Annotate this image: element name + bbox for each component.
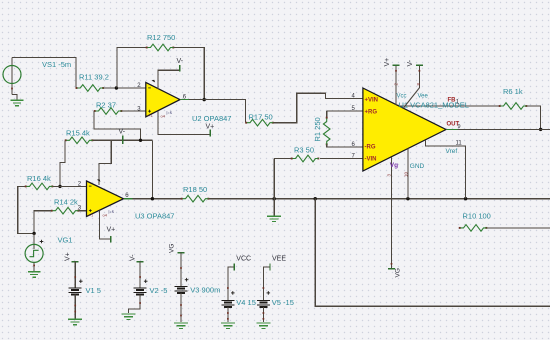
- wire V1 to ground: [74, 295, 76, 319]
- wire R12 right down to U2 output: [174, 48, 204, 100]
- svg-text:Vee: Vee: [418, 94, 429, 100]
- svg-text:11: 11: [456, 141, 463, 147]
- svg-text:o4: o4: [161, 114, 166, 119]
- resistor R15: [65, 139, 67, 141]
- battery V5: [257, 300, 270, 307]
- wire R10 right: [487, 227, 550, 229]
- svg-text:V-: V-: [177, 58, 184, 65]
- battery V3: [175, 286, 188, 293]
- svg-text:V2 -5: V2 -5: [150, 286, 168, 295]
- svg-text:V+: V+: [206, 123, 215, 130]
- wire U1 GND pin: [407, 149, 409, 199]
- svg-text:⁓1: ⁓1: [88, 213, 94, 217]
- svg-text:o4: o4: [103, 213, 108, 218]
- node junction bus/Vref: [464, 197, 467, 200]
- wire U1 output: [446, 128, 550, 130]
- wire R3 left drop: [273, 159, 275, 199]
- wire U2 output: [180, 100, 246, 123]
- svg-text:VCC: VCC: [236, 256, 251, 263]
- node junction R11/R12: [115, 86, 118, 89]
- wire V3 top: [180, 253, 182, 287]
- wire V5 top: [263, 267, 269, 300]
- node junction pin2: [58, 185, 61, 188]
- wire return line bottom: [315, 199, 550, 307]
- svg-text:V3 900m: V3 900m: [190, 286, 220, 295]
- resistor R6: [499, 105, 501, 107]
- svg-text:U3 OPA847: U3 OPA847: [135, 212, 174, 221]
- svg-text:R17 50: R17 50: [249, 112, 273, 121]
- wire V3 to ground: [180, 293, 182, 322]
- wire U1 FB pin to R6: [399, 105, 499, 107]
- wire U2 V- supply: [158, 70, 179, 89]
- svg-text:R15 4k: R15 4k: [66, 128, 90, 137]
- svg-text:10: 10: [404, 171, 409, 177]
- wire bus ground stub: [273, 199, 275, 216]
- resistor R10: [459, 227, 461, 229]
- terminal V- (V2): [137, 261, 144, 263]
- svg-text:R11 39.2: R11 39.2: [79, 73, 109, 82]
- svg-text:V4 15: V4 15: [236, 298, 256, 307]
- wire V4 top: [228, 267, 234, 300]
- wire junction up to R12: [117, 48, 146, 89]
- wire U1 V- supply: [418, 65, 420, 88]
- svg-text:R12 750: R12 750: [147, 33, 175, 42]
- svg-text:V-: V-: [119, 128, 126, 135]
- svg-text:GND: GND: [410, 163, 425, 170]
- wire U1 Vg pin: [391, 157, 393, 269]
- supply pin arrow U2 top: [152, 80, 156, 83]
- wire V4 to ground: [227, 307, 229, 322]
- svg-text:V-: V-: [129, 254, 136, 261]
- svg-text:Vref: Vref: [446, 148, 458, 155]
- svg-text:V1 5: V1 5: [86, 286, 101, 295]
- svg-text:R14 2k: R14 2k: [54, 198, 78, 207]
- wire R16 left down to VG1 node: [18, 186, 34, 233]
- wire V- net horizontal: [93, 139, 152, 141]
- node junction bus/R3/gnd: [273, 197, 276, 200]
- wire VG1 to ground: [33, 262, 35, 271]
- green pin leads: [124, 100, 458, 199]
- wire R14 left down to VG1 node: [34, 211, 51, 234]
- wire U1 +RG pin5: [327, 110, 363, 112]
- resistor R3: [291, 158, 293, 160]
- terminal VCC: [233, 264, 235, 271]
- battery V4: [221, 300, 234, 307]
- svg-text:R18 50: R18 50: [183, 185, 207, 194]
- svg-text:R6 1k: R6 1k: [503, 87, 523, 96]
- svg-text:VG1: VG1: [58, 236, 73, 245]
- op-amp U2: [146, 82, 180, 116]
- wire U2 V+ supply: [158, 111, 210, 135]
- svg-text:V+: V+: [107, 226, 116, 233]
- wire U3 supply pin up to net: [99, 140, 111, 185]
- wire R3 to U1 -VIN pin7: [320, 158, 363, 160]
- svg-text:Vcc: Vcc: [397, 94, 407, 100]
- node junction R12/out: [203, 98, 206, 101]
- svg-text:R10 100: R10 100: [463, 211, 491, 220]
- wire U1 Vref pin: [425, 140, 465, 199]
- terminal V- (U1): [416, 64, 423, 66]
- svg-text:V5 -15: V5 -15: [272, 298, 294, 307]
- wire U3 output / ground bus: [124, 198, 182, 200]
- source VG1: [33, 233, 35, 249]
- svg-text:▷s: ▷s: [167, 110, 172, 115]
- ground (VS1): [11, 100, 24, 105]
- node junction bus/U1gnd: [406, 197, 409, 200]
- terminal V- (U3 net): [122, 135, 124, 144]
- resistor R12: [146, 47, 148, 49]
- node junction R2jog/V-net: [139, 139, 142, 142]
- terminal V+ (U2): [209, 129, 211, 136]
- supply pin arrow U3 top: [97, 179, 101, 182]
- terminal V+ (U1): [392, 64, 399, 66]
- wire R17 to U1 +VIN pin4: [274, 93, 363, 123]
- resistor R16: [25, 185, 27, 187]
- resistor R18: [181, 198, 183, 200]
- wire V1 top: [74, 262, 76, 288]
- svg-text:VG: VG: [395, 268, 402, 277]
- svg-text:-VIN: -VIN: [365, 156, 377, 162]
- battery V2: [134, 288, 147, 295]
- ground (V2): [122, 314, 136, 319]
- resistor R17: [245, 122, 247, 124]
- node junction VG1: [32, 232, 35, 235]
- ground (bus): [267, 216, 281, 221]
- svg-text:+RG: +RG: [365, 109, 378, 115]
- node junction FB/OUT: [539, 128, 542, 131]
- svg-text:VEE: VEE: [272, 256, 286, 263]
- svg-text:⁓1: ⁓1: [147, 114, 153, 118]
- terminal V+ (V1): [72, 261, 79, 263]
- svg-text:R2 37: R2 37: [96, 100, 116, 109]
- wire R15 left jog down to U3 pin2: [60, 140, 65, 186]
- voltage source VS1: [11, 58, 13, 95]
- wire V- net down to U3 output: [151, 140, 153, 198]
- wire R11 to U2 pin2: [104, 87, 146, 89]
- op-amp U1 VCA821: [363, 88, 446, 171]
- battery V1: [69, 288, 82, 295]
- wire R16 to U3 pin2: [53, 185, 87, 187]
- svg-text:VG: VG: [169, 244, 176, 253]
- node junction U3out/V-net: [151, 197, 154, 200]
- svg-text:+VIN: +VIN: [365, 98, 379, 104]
- ground (V4): [221, 323, 235, 328]
- svg-text:▷s: ▷s: [109, 209, 114, 214]
- svg-text:U2 OPA847: U2 OPA847: [192, 114, 231, 123]
- svg-text:V-: V-: [407, 59, 414, 66]
- svg-text:Vg: Vg: [390, 162, 398, 169]
- svg-text:9: 9: [458, 124, 461, 130]
- terminal VEE: [269, 264, 271, 271]
- wire V2 top: [139, 262, 141, 288]
- svg-text:R16 4k: R16 4k: [27, 174, 51, 183]
- wire R2 left jog down to V- net: [94, 111, 141, 140]
- ground (V3): [174, 323, 188, 328]
- wire R6 down to OUT: [527, 106, 541, 129]
- svg-text:R1 250: R1 250: [313, 117, 322, 141]
- node junction bus/return: [314, 197, 317, 200]
- ground (V1): [68, 319, 82, 324]
- wire VS1 top to R11: [12, 58, 76, 89]
- resistor R11: [76, 87, 78, 89]
- resistor R1 (vertical): [326, 117, 328, 119]
- wire U3 V+ supply: [100, 211, 111, 240]
- svg-text:-RG: -RG: [365, 145, 376, 151]
- wire R2 to U2 pin3: [122, 110, 146, 112]
- ground (VG1): [28, 272, 41, 277]
- terminal V+ (U3): [110, 236, 112, 242]
- wire V2 to ground: [129, 295, 141, 313]
- resistor R2: [94, 110, 96, 112]
- wire VS1 to ground: [12, 95, 17, 100]
- svg-text:R3 50: R3 50: [294, 145, 314, 154]
- svg-text:V+: V+: [65, 252, 72, 261]
- svg-text:V+: V+: [384, 58, 391, 67]
- ground (V5): [256, 323, 270, 328]
- wire V5 to ground: [262, 307, 264, 322]
- op-amp U3: [87, 181, 124, 217]
- terminal V- (U2): [179, 65, 181, 72]
- svg-text:VS1 -5m: VS1 -5m: [42, 60, 71, 69]
- resistor R14: [51, 210, 53, 212]
- wire U1 V+ supply: [395, 65, 397, 105]
- wire R14 to U3 pin3: [79, 210, 87, 212]
- terminal VG (V3): [178, 252, 185, 254]
- wire U1 -RG pin6: [327, 145, 363, 148]
